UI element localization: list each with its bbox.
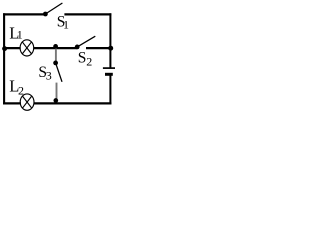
svg-text:1: 1: [63, 18, 69, 32]
node: junction dot middle wire / S3 branch: [53, 44, 58, 49]
lamp L2: [20, 94, 34, 110]
node: junction dot on left wire at L1 row: [2, 46, 7, 51]
wire: left vertical: [3, 13, 5, 104]
wire: right vertical upper (top corner to battery): [109, 13, 111, 67]
wire: top horizontal right segment after S1: [64, 13, 111, 15]
switch S3: [53, 61, 62, 82]
svg-text:3: 3: [46, 69, 52, 83]
lamp L1: [20, 40, 34, 56]
wire: gray vertical branch, junction to S3 pivot: [55, 49, 57, 63]
wire: middle row after S2 to right wire: [86, 47, 110, 49]
wire: middle row from left wire to lamp L1: [4, 47, 21, 49]
node: junction dot bottom wire / S3 branch: [53, 98, 58, 103]
svg-text:2: 2: [86, 55, 92, 69]
wire: gray vertical branch, S3 lever tip to bottom junction: [56, 83, 58, 101]
wire: right vertical lower (battery to bottom corner): [109, 75, 111, 105]
svg-text:S: S: [78, 50, 87, 67]
switch S2: [75, 36, 96, 49]
switch S1: [43, 3, 62, 16]
wire: middle row from L1 to S2 pivot: [33, 47, 77, 49]
node: junction dot right wire / middle row: [108, 46, 113, 51]
svg-text:2: 2: [18, 83, 24, 97]
battery: long plate (positive): [103, 67, 115, 69]
wire: top horizontal left segment to S1 pivot: [3, 13, 45, 15]
wire: bottom horizontal left segment to lamp L2: [3, 102, 21, 104]
svg-text:1: 1: [17, 28, 23, 42]
battery: short thick plate (negative): [105, 73, 113, 76]
wire: bottom horizontal right segment from L2 to right corner: [34, 102, 112, 104]
